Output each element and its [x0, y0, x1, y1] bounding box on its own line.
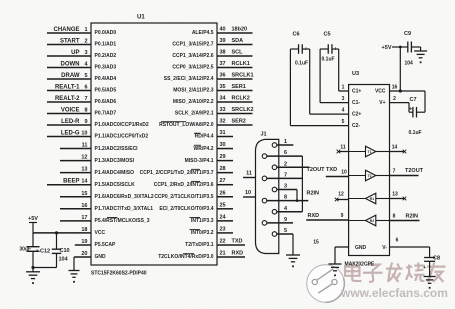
svg-text:6: 6 — [84, 85, 87, 91]
svg-text:DRAW: DRAW — [61, 73, 80, 79]
svg-text:CCP0_2/T1CLKO/T1/P3.5: CCP0_2/T1CLKO/T1/P3.5 — [154, 194, 213, 200]
svg-text:SCL: SCL — [232, 50, 244, 56]
svg-text:RSTOUT_LOW/A8/P2.0: RSTOUT_LOW/A8/P2.0 — [159, 122, 214, 128]
buffer R1 — [349, 193, 390, 204]
U1 pin 14 wire — [47, 179, 135, 188]
svg-text:104: 104 — [405, 61, 414, 67]
svg-text:9: 9 — [284, 217, 287, 223]
U1 pin 22 wire — [185, 238, 245, 248]
U3 pin 14 T1OUT — [390, 145, 407, 154]
svg-text:3: 3 — [342, 96, 345, 102]
U1 pin 33 wire — [175, 107, 254, 117]
svg-text:16: 16 — [392, 85, 398, 91]
U3 pin 4 C2+ — [310, 108, 349, 115]
svg-text:3: 3 — [84, 50, 87, 56]
svg-text:P0.7/AD7: P0.7/AD7 — [95, 111, 117, 117]
connector J1 DB9 — [256, 132, 279, 254]
svg-text:CCP1_2/RxD_2/INT2/P3.6: CCP1_2/RxD_2/INT2/P3.6 — [154, 182, 214, 188]
svg-text:VCC: VCC — [375, 89, 386, 95]
svg-text:CCP1_3/A14/P2.6: CCP1_3/A14/P2.6 — [172, 53, 213, 59]
watermark logo (decorative) — [307, 265, 345, 303]
svg-text:30uF: 30uF — [19, 247, 31, 253]
svg-text:T1: T1 — [368, 150, 372, 154]
U3 pin 11 T1IN — [337, 145, 349, 154]
svg-text:17: 17 — [81, 215, 87, 221]
svg-text:P1.6/ADC6/RxD_3/XTAL2: P1.6/ADC6/RxD_3/XTAL2 — [95, 194, 154, 200]
svg-text:SER1: SER1 — [232, 84, 246, 90]
svg-text:1: 1 — [284, 139, 287, 145]
svg-text:22: 22 — [219, 238, 225, 244]
capacitor C9 104 — [400, 31, 420, 67]
svg-text:30: 30 — [219, 142, 225, 148]
buffer T2 — [349, 170, 390, 181]
svg-text:12: 12 — [338, 192, 344, 198]
U1 pin 3 wire — [47, 50, 116, 59]
svg-text:0.1uF: 0.1uF — [409, 130, 422, 136]
net label R2IN — [307, 191, 320, 197]
svg-text:18b20: 18b20 — [232, 27, 248, 33]
U1 pin 31 wire — [195, 130, 233, 140]
svg-text:25: 25 — [219, 202, 225, 208]
svg-text:20: 20 — [81, 251, 87, 257]
capacitor C8 — [423, 247, 440, 276]
U1 pin 27 wire — [154, 178, 233, 188]
svg-text:LED-R: LED-R — [61, 119, 80, 125]
svg-text:ECI_2/T0CLKO/T0/P3.4: ECI_2/T0CLKO/T0/P3.4 — [159, 206, 213, 212]
svg-text:27: 27 — [219, 178, 225, 184]
U1 pin 6 wire — [47, 85, 116, 94]
svg-text:10: 10 — [341, 170, 347, 176]
svg-text:P0.0/AD0: P0.0/AD0 — [95, 30, 117, 36]
svg-text:1: 1 — [84, 27, 87, 33]
svg-text:P1.7/ADC7/TxD_3/XTAL1: P1.7/ADC7/TxD_3/XTAL1 — [95, 206, 154, 212]
svg-text:P0.1/AD1: P0.1/AD1 — [95, 42, 117, 48]
wire C5 left to U3 pin 3 — [320, 49, 328, 103]
J1 pin 3 — [272, 184, 297, 192]
svg-text:STC15F2K60S2-PDIP40: STC15F2K60S2-PDIP40 — [91, 271, 147, 277]
U1 pin 7 wire — [47, 96, 116, 105]
U3 internal labels — [352, 89, 387, 252]
svg-text:29: 29 — [219, 154, 225, 160]
svg-text:C8: C8 — [433, 256, 440, 262]
svg-text:RCLK2: RCLK2 — [232, 96, 250, 102]
U1 pin 32 wire — [159, 119, 252, 129]
svg-text:6: 6 — [396, 238, 399, 244]
U1 pin 24 wire — [191, 214, 233, 224]
svg-text:P0.2/AD2: P0.2/AD2 — [95, 53, 117, 59]
svg-text:C2+: C2+ — [352, 112, 361, 118]
svg-text:C2-: C2- — [352, 123, 360, 129]
svg-text:RD/P4.4: RD/P4.4 — [195, 134, 214, 140]
svg-text:P1.1/ADC1/CCP0/TxD2: P1.1/ADC1/CCP0/TxD2 — [95, 134, 149, 140]
svg-text:U3: U3 — [352, 71, 359, 77]
svg-text:9: 9 — [341, 213, 344, 219]
svg-text:2: 2 — [284, 161, 287, 167]
U1 pin 21 wire — [158, 251, 245, 261]
U3 pin 8 R2IN wire — [390, 214, 420, 221]
svg-text:SS_2/ECI_3/A12/P2.4: SS_2/ECI_3/A12/P2.4 — [164, 76, 214, 82]
capacitor C10 104 — [52, 231, 70, 267]
U3 pin 6 V- — [390, 238, 430, 248]
ground at U1 pin 20 — [69, 257, 80, 283]
ground at C8 — [424, 277, 436, 289]
U1 pin 9 wire — [47, 119, 149, 128]
U1 pin 38 wire — [172, 50, 252, 60]
U1 pin 35 wire — [173, 84, 252, 94]
svg-text:+5V: +5V — [382, 45, 392, 51]
svg-text:38: 38 — [219, 50, 225, 56]
capacitor C5 0.1uF — [322, 32, 338, 63]
capacitor C6 0.1uF — [293, 32, 309, 67]
svg-text:R2IN: R2IN — [307, 191, 320, 197]
U1 pin 18 wire — [33, 227, 105, 236]
U1 pin 1 wire — [47, 27, 116, 36]
U3 pin 5 C2- — [290, 119, 348, 126]
svg-text:REALT-2: REALT-2 — [55, 96, 80, 102]
svg-text:J1: J1 — [261, 132, 267, 138]
svg-text:P1.0/ADC0/CCP1/RxD2: P1.0/ADC0/CCP1/RxD2 — [95, 122, 149, 128]
svg-text:CCP0_3/A13/P2.5: CCP0_3/A13/P2.5 — [172, 65, 213, 71]
ground at C9 — [414, 47, 427, 63]
svg-text:T2/TxD/P3.1: T2/TxD/P3.1 — [185, 242, 214, 248]
svg-text:7: 7 — [284, 172, 287, 178]
svg-text:13: 13 — [392, 192, 398, 198]
svg-text:RXD: RXD — [232, 251, 244, 257]
U3 pin 9 R2OUT wire RXD — [306, 213, 348, 220]
wire stub 10 at J1 left — [243, 190, 256, 197]
U1 pin 36 wire — [164, 73, 254, 83]
U1 pin 2 wire — [47, 39, 116, 48]
U1 pin 26 wire — [154, 190, 233, 200]
wire bottom rail — [31, 266, 56, 269]
U1 pin 20 wire — [74, 251, 106, 260]
svg-text:8: 8 — [84, 108, 87, 114]
svg-text:R2: R2 — [370, 219, 374, 223]
svg-text:T2OUT TXD: T2OUT TXD — [307, 167, 338, 173]
buffer T1 — [349, 146, 390, 157]
svg-text:SRCLK1: SRCLK1 — [232, 73, 254, 79]
svg-text:0.1uF: 0.1uF — [295, 61, 308, 67]
J1 pin 1 — [272, 139, 293, 147]
U1 pin 39 wire — [172, 38, 252, 48]
svg-text:VCC: VCC — [95, 230, 106, 236]
svg-text:11: 11 — [82, 143, 88, 149]
svg-text:C6: C6 — [293, 32, 300, 38]
svg-text:15: 15 — [313, 240, 319, 246]
svg-text:GND: GND — [355, 245, 367, 251]
svg-text:31: 31 — [219, 130, 225, 136]
svg-text:C12: C12 — [40, 249, 50, 255]
svg-text:T2OUT: T2OUT — [405, 168, 424, 174]
svg-text:13: 13 — [81, 167, 87, 173]
svg-text:40: 40 — [219, 27, 225, 33]
svg-text:21: 21 — [219, 251, 225, 257]
svg-text:8: 8 — [284, 195, 287, 201]
U3 pin 3 C1- — [320, 96, 349, 103]
watermark text (decorative) — [340, 263, 448, 301]
svg-text:CHANGE: CHANGE — [53, 27, 79, 33]
wire stub 11 at J1 left — [243, 171, 256, 178]
svg-text:DOWN: DOWN — [61, 62, 80, 68]
svg-text:39: 39 — [219, 38, 225, 44]
svg-text:RCLK1: RCLK1 — [232, 61, 250, 67]
svg-text:C1+: C1+ — [352, 89, 361, 95]
svg-text:33: 33 — [219, 107, 225, 113]
J1 pin 5 — [272, 228, 293, 236]
svg-text:START: START — [60, 39, 80, 45]
svg-text:4: 4 — [342, 108, 345, 114]
U1 pin 15 wire — [60, 191, 154, 200]
svg-text:6: 6 — [284, 150, 287, 156]
svg-text:R2IN: R2IN — [406, 214, 419, 220]
svg-text:P0.5/AD5: P0.5/AD5 — [95, 88, 117, 94]
svg-text:P1.3/ADC3/MOSI: P1.3/ADC3/MOSI — [95, 158, 135, 164]
svg-text:P5.5CAP: P5.5CAP — [95, 242, 117, 248]
U3 pin 16 VCC — [390, 85, 402, 93]
svg-text:28: 28 — [219, 166, 225, 172]
U1 pin 11 wire — [60, 143, 138, 152]
svg-text:35: 35 — [219, 84, 225, 90]
svg-text:11: 11 — [246, 171, 252, 177]
U1 pin 12 wire — [60, 155, 135, 164]
U1 pin 16 wire — [60, 203, 153, 212]
overlines active-low labels — [107, 122, 201, 254]
J1 pin 9 — [262, 217, 293, 225]
J1 pin 6 — [262, 150, 302, 158]
capacitor C7 0.1uF — [400, 91, 425, 136]
svg-text:C7: C7 — [410, 97, 417, 103]
J1 pin 7 — [262, 172, 302, 180]
svg-text:LED-G: LED-G — [61, 131, 80, 137]
svg-text:2: 2 — [84, 39, 87, 45]
svg-text:16: 16 — [81, 203, 87, 209]
svg-text:V+: V+ — [379, 100, 385, 106]
U1 pin 19 wire — [75, 239, 116, 248]
svg-text:SRCLK2: SRCLK2 — [232, 107, 254, 113]
svg-text:P1.2/ADC2/SS/ECI: P1.2/ADC2/SS/ECI — [95, 146, 139, 152]
svg-text:3: 3 — [284, 184, 287, 190]
svg-text:CCP1_2/CCP1/TxD_2/INT1/P3.7: CCP1_2/CCP1/TxD_2/INT1/P3.7 — [140, 170, 214, 176]
power +5V at C9 — [382, 45, 402, 91]
capacitor C12 30uF — [19, 233, 50, 268]
U3 pin 15 GND — [313, 240, 348, 248]
J1 pin 2 — [272, 161, 309, 169]
J1 pin 4 — [272, 206, 302, 214]
svg-text:CCP1_3/A15/P2.7: CCP1_3/A15/P2.7 — [172, 42, 213, 48]
svg-text:7: 7 — [393, 169, 396, 175]
svg-text:R1: R1 — [370, 197, 374, 201]
svg-text:12: 12 — [81, 155, 87, 161]
IC U3 MAX202 body — [345, 71, 390, 268]
svg-text:MISO-3/P4.1: MISO-3/P4.1 — [185, 158, 214, 164]
ground under C12 — [26, 268, 40, 285]
U1 pin 17 wire — [60, 215, 150, 224]
svg-text:19: 19 — [81, 239, 87, 245]
svg-text:9: 9 — [84, 119, 87, 125]
svg-text:INT1/P3.3: INT1/P3.3 — [191, 218, 214, 224]
svg-text:P0.4/AD4: P0.4/AD4 — [95, 76, 117, 82]
svg-text:BEEP: BEEP — [63, 179, 79, 185]
svg-text:P5.4/RST/MCLKO/SS_3: P5.4/RST/MCLKO/SS_3 — [95, 218, 150, 224]
U3 pin 1 C1+ — [339, 85, 349, 92]
U1 pin 4 wire — [47, 62, 116, 71]
svg-text:2: 2 — [393, 96, 396, 102]
svg-text:5: 5 — [84, 73, 87, 79]
U1 pin 30 wire — [193, 142, 233, 152]
svg-text:WR/P4.2: WR/P4.2 — [193, 146, 213, 152]
svg-text:UP: UP — [71, 50, 79, 56]
svg-text:14: 14 — [392, 145, 398, 151]
svg-text:5: 5 — [342, 119, 345, 125]
svg-text:RXD: RXD — [308, 213, 320, 219]
svg-text:1: 1 — [342, 85, 345, 91]
svg-text:SER2: SER2 — [232, 119, 246, 125]
svg-text:+: + — [36, 249, 39, 255]
svg-text:0.1uF: 0.1uF — [322, 57, 335, 63]
svg-text:+: + — [409, 107, 412, 113]
svg-text:MISO_2/A10/P2.2: MISO_2/A10/P2.2 — [173, 99, 214, 105]
svg-text:T2: T2 — [368, 174, 372, 178]
ground at J1 pin 5 — [286, 234, 300, 267]
buffer R2 — [349, 215, 390, 226]
U3 pin 12 R1OUT — [335, 192, 349, 202]
svg-text:10: 10 — [81, 131, 87, 137]
U1 pin 28 wire — [140, 166, 233, 176]
U3 pin 2 V+ — [390, 96, 410, 103]
power +5V supply — [28, 216, 38, 233]
svg-text:24: 24 — [219, 214, 226, 220]
svg-text:TXD: TXD — [232, 238, 243, 244]
svg-text:5: 5 — [284, 228, 287, 234]
U1 pin 5 wire — [47, 73, 116, 82]
svg-text:U1: U1 — [137, 15, 145, 21]
U1 pin 34 wire — [173, 96, 253, 106]
wire C6 left to U3 pin 5 — [290, 49, 298, 126]
svg-text:P0.6/AD6: P0.6/AD6 — [95, 99, 117, 105]
J1 pin 8 — [262, 195, 308, 203]
svg-text:ALE/P4.5: ALE/P4.5 — [192, 30, 214, 36]
svg-text:C10: C10 — [60, 248, 70, 254]
svg-text:11: 11 — [340, 145, 346, 151]
svg-text:8: 8 — [393, 214, 396, 220]
wire C6 right to U3 pin 4 — [302, 49, 310, 114]
U1 pin 23 wire — [191, 226, 233, 236]
svg-text:C9: C9 — [404, 31, 411, 37]
svg-text:+5V: +5V — [28, 216, 38, 222]
svg-text:GND: GND — [95, 254, 107, 260]
U1 pin 25 wire — [159, 202, 233, 212]
svg-text:MOSI_2/A11/P2.3: MOSI_2/A11/P2.3 — [173, 88, 214, 94]
U3 pin 10 T2IN wire TXD — [307, 167, 349, 177]
ground at U3 pin 15 — [329, 247, 342, 276]
svg-text:36: 36 — [219, 73, 225, 79]
U1 pin 8 wire — [47, 108, 116, 117]
wire J1 pins 3-8 tie — [296, 190, 299, 203]
svg-text:V-: V- — [382, 245, 387, 251]
svg-text:T2CLKO/INT4/RxD/P3.0: T2CLKO/INT4/RxD/P3.0 — [158, 254, 214, 260]
IC U1 STC15F2K60S2 body — [91, 15, 217, 277]
wire J1 pins 6-7-4 tie — [301, 156, 303, 212]
U1 pin 13 wire — [60, 167, 134, 176]
svg-text:P1.4/ADC4/MISO: P1.4/ADC4/MISO — [95, 170, 135, 176]
svg-text:32: 32 — [219, 119, 225, 125]
svg-text:+: + — [423, 265, 426, 271]
U1 pin 10 wire — [47, 131, 148, 140]
svg-text:34: 34 — [219, 96, 226, 102]
svg-text:VOICE: VOICE — [61, 108, 80, 114]
U1 pin 37 wire — [172, 61, 252, 71]
svg-text:23: 23 — [219, 226, 225, 232]
svg-text:P1.5/ADC5/SCLK: P1.5/ADC5/SCLK — [95, 182, 136, 188]
svg-text:C1-: C1- — [352, 100, 360, 106]
svg-text:REALT-1: REALT-1 — [55, 85, 80, 91]
svg-text:P0.3/AD3: P0.3/AD3 — [95, 65, 117, 71]
svg-text:www.elecfans.com: www.elecfans.com — [340, 286, 448, 300]
U3 pin 13 R1IN — [390, 192, 407, 201]
svg-text:SCLK_2/A9/P2.1: SCLK_2/A9/P2.1 — [175, 111, 214, 117]
svg-text:MAX202CPE: MAX202CPE — [345, 262, 375, 268]
svg-text:14: 14 — [81, 179, 88, 185]
svg-text:SDA: SDA — [232, 38, 244, 44]
U1 pin 40 wire — [192, 27, 253, 37]
svg-text:37: 37 — [219, 61, 225, 67]
svg-text:10: 10 — [245, 190, 251, 196]
U1 pin 29 wire — [185, 154, 233, 164]
svg-text:26: 26 — [219, 190, 225, 196]
svg-text:7: 7 — [84, 96, 87, 102]
svg-text:18: 18 — [81, 227, 87, 233]
svg-text:15: 15 — [81, 191, 87, 197]
svg-text:INT0/P3.2: INT0/P3.2 — [191, 230, 214, 236]
U3 pin 7 T2OUT wire — [390, 168, 424, 176]
svg-text:C5: C5 — [324, 32, 331, 38]
svg-text:104: 104 — [59, 257, 69, 263]
wire C5 right to U3 pin 1 — [332, 49, 339, 91]
